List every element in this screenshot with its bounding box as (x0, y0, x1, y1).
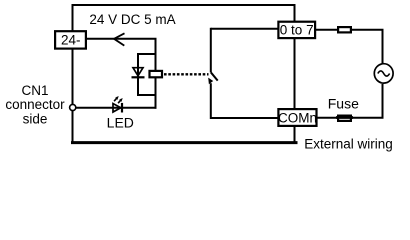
svg-text:External wiring: External wiring (304, 136, 393, 151)
svg-text:Fuse: Fuse (328, 95, 359, 111)
svg-text:CN1: CN1 (21, 83, 48, 98)
svg-text:LED: LED (107, 114, 134, 130)
svg-text:connector: connector (5, 97, 65, 112)
svg-text:24 V DC 5 mA: 24 V DC 5 mA (89, 12, 175, 27)
svg-text:24-: 24- (61, 33, 81, 48)
svg-text:side: side (23, 111, 48, 126)
svg-text:0 to 7: 0 to 7 (280, 23, 314, 38)
svg-text:COMn: COMn (278, 110, 317, 125)
